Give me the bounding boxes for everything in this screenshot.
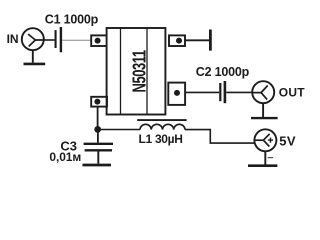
svg-text:C1 1000p: C1 1000p: [45, 12, 99, 26]
pin pad U1 top-left: [91, 35, 108, 46]
svg-text:C2 1000p: C2 1000p: [196, 65, 250, 79]
wire (IN to C1): [44, 39, 55, 41]
capacitor C1: [55, 27, 63, 52]
wire (pin down to junction): [97, 107, 99, 127]
inductor L1 core bar: [137, 119, 186, 121]
connector X1 IN: [22, 28, 44, 50]
wire (C2 to OUT): [226, 91, 252, 93]
svg-text:N50311: N50311: [131, 50, 151, 93]
svg-text:5V: 5V: [279, 134, 296, 149]
connector X2 OUT: [252, 81, 274, 103]
connector X3 5V: [254, 129, 276, 151]
wire (L1 to 5V connector, with corner): [185, 130, 255, 144]
inductor L1 windings: [140, 124, 185, 129]
capacitor C3: [84, 144, 113, 164]
ground (under IN): [24, 50, 46, 64]
junction node: [94, 126, 101, 133]
svg-text:0,01м: 0,01м: [49, 150, 81, 164]
ground (under 5V): [248, 151, 277, 166]
wire (junction down to C3): [97, 130, 99, 143]
wire (pin to top-right ground): [185, 39, 209, 41]
svg-text:L1 30µH: L1 30µH: [139, 132, 183, 146]
wire (pin to C2): [185, 91, 219, 93]
ground (under OUT): [251, 103, 278, 118]
wire (C1 to U1 pin pad, faint): [62, 39, 91, 41]
wire (junction to L1): [98, 129, 140, 131]
ground (under C3): [83, 164, 112, 167]
pin pad U1 bottom-right: [168, 83, 185, 105]
IC U1 N50311: [107, 28, 166, 115]
svg-text:IN: IN: [7, 32, 19, 46]
capacitor C2: [219, 81, 226, 103]
minus mark under 5V connector: [268, 157, 274, 159]
pin pad U1 bottom-left: [91, 97, 107, 107]
ground (top right, vertical bar): [209, 30, 212, 51]
pin pad U1 top-right: [169, 35, 185, 46]
svg-text:OUT: OUT: [279, 85, 305, 99]
